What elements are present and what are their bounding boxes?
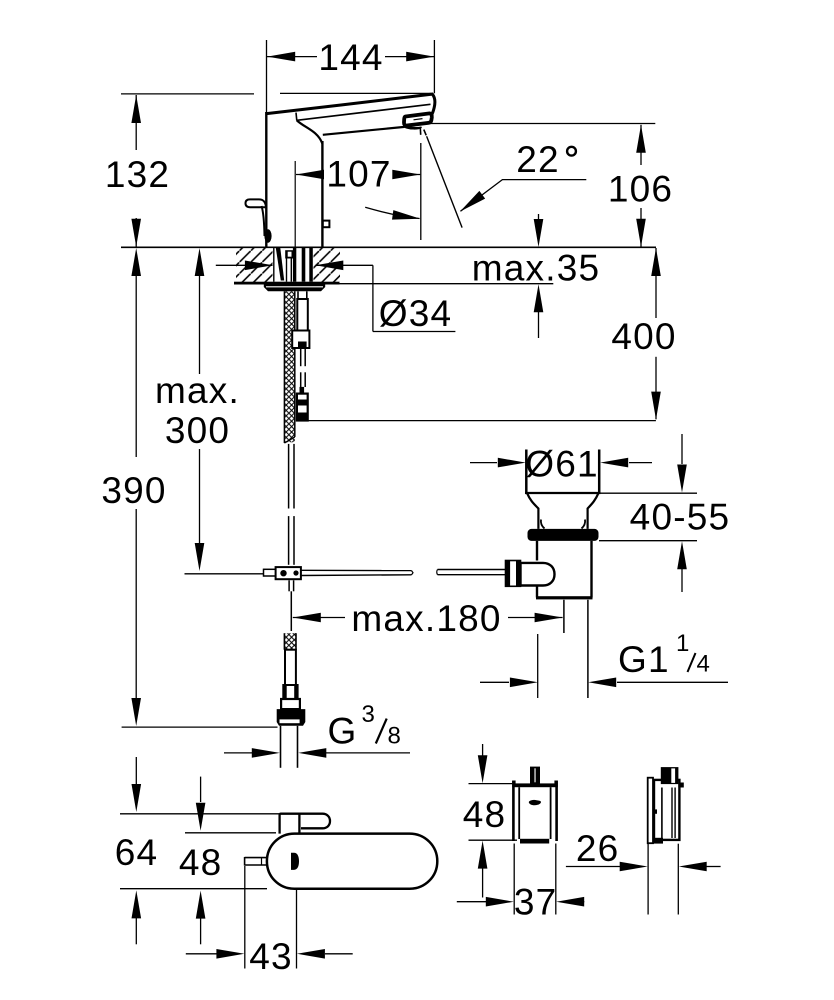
- svg-text:3: 3: [362, 701, 375, 728]
- spout crease line: [297, 104, 431, 120]
- svg-text:max.180: max.180: [351, 598, 501, 639]
- svg-text:48: 48: [463, 794, 507, 835]
- dim 48 unit: [469, 783, 513, 785]
- svg-text:Ø34: Ø34: [379, 293, 453, 334]
- dim 106 line: [640, 125, 642, 165]
- SECTION: power unit front view: [512, 767, 558, 844]
- drain cup: [525, 450, 600, 494]
- svg-text:40-55: 40-55: [630, 497, 731, 538]
- shank internals: [274, 248, 313, 282]
- cable plug connector: [297, 387, 308, 421]
- braided hose upper: [284, 291, 294, 443]
- svg-text:64: 64: [115, 832, 159, 873]
- dim 43: [244, 866, 246, 969]
- faucet body left edge: [265, 112, 267, 247]
- svg-text:400: 400: [611, 316, 676, 357]
- body stadium top view: [267, 834, 437, 889]
- drain tailpipe: [538, 600, 588, 698]
- dim 37: [513, 844, 515, 915]
- dim max300 line: [199, 276, 201, 374]
- dim 106 ext line top: [427, 123, 655, 125]
- dim 144 ext line left: [266, 40, 268, 113]
- counter bottom ext line: [340, 283, 554, 285]
- hose bottom ext line: [308, 420, 656, 422]
- dim 132 ext line top: [121, 93, 254, 95]
- dim G3/8: [224, 752, 252, 754]
- spout front curve: [297, 120, 323, 143]
- counter top line: [121, 246, 656, 248]
- dim O34 line: [216, 264, 273, 266]
- counter hatch right: [314, 248, 341, 282]
- counter bottom thick: [234, 282, 340, 285]
- svg-text:22: 22: [516, 139, 560, 180]
- lower hose end: [277, 633, 306, 726]
- valve tube: [292, 291, 309, 387]
- down tube: [289, 444, 294, 565]
- dim 64: [120, 813, 279, 815]
- sensor window: [291, 853, 299, 870]
- rod top view: [245, 857, 268, 866]
- cross fitting: [264, 567, 301, 591]
- dim max35 lower arrow: [538, 291, 540, 338]
- svg-text:107: 107: [326, 153, 391, 194]
- svg-text:G1: G1: [618, 639, 670, 680]
- svg-text:390: 390: [101, 470, 166, 511]
- SECTION: power unit side view: [648, 767, 684, 844]
- dim 48 top view: [185, 832, 276, 834]
- svg-text:4: 4: [697, 651, 710, 678]
- svg-text:Ø61: Ø61: [525, 443, 599, 484]
- svg-text:1: 1: [676, 630, 689, 657]
- 22 deg leader: [461, 180, 587, 212]
- spout underside: [323, 127, 405, 135]
- faucet spout top: [266, 94, 435, 115]
- spout top level line: [280, 92, 432, 94]
- svg-text:48: 48: [179, 842, 223, 883]
- angle arc arrow: [365, 207, 419, 218]
- spout step: [295, 113, 298, 121]
- dim max35 upper arrow: [538, 214, 540, 241]
- dim 132 line: [135, 95, 137, 150]
- escutcheon flange: [264, 284, 325, 291]
- svg-text:max.35: max.35: [472, 248, 601, 289]
- supply pipe G3/8: [281, 726, 298, 768]
- svg-text:max.: max.: [155, 370, 240, 411]
- pop-up rod left piece: [301, 570, 413, 575]
- dim max300 ext line: [185, 573, 264, 575]
- temperature lever: [246, 199, 272, 242]
- drain body: [536, 541, 593, 600]
- svg-text:8: 8: [388, 723, 401, 750]
- spray angle line: [427, 136, 463, 227]
- svg-text:144: 144: [318, 37, 383, 78]
- dim 390 ext line bottom: [122, 726, 278, 728]
- drain funnel neck: [527, 493, 599, 529]
- drain seal ring: [528, 529, 599, 541]
- svg-text:37: 37: [514, 882, 558, 923]
- dim O61: [470, 462, 497, 464]
- dim 144 line: [267, 56, 317, 58]
- drain rod clamp and dome: [437, 561, 555, 587]
- faucet body right edge: [321, 141, 323, 247]
- dim 400 line: [655, 248, 657, 318]
- dim 107 right ext vertical: [420, 143, 422, 240]
- dim 390 line: [135, 276, 137, 457]
- dim 26: [647, 844, 649, 915]
- spray dashes: [419, 128, 421, 135]
- svg-text:G: G: [328, 711, 358, 752]
- dim 144 ext line right: [433, 40, 435, 93]
- counter hatch left: [236, 248, 273, 282]
- faucet centerline: [294, 161, 296, 247]
- svg-text:43: 43: [249, 936, 293, 977]
- dim 107 line: [296, 174, 323, 176]
- dim 40-55: [681, 434, 683, 464]
- svg-text:300: 300: [165, 410, 230, 451]
- dim G1 1/4: [480, 681, 509, 683]
- svg-text:26: 26: [576, 828, 620, 869]
- cable below fitting: [290, 591, 292, 631]
- dim O34 leader box: [372, 265, 374, 331]
- dim max180 line: [293, 617, 345, 619]
- clip on right edge: [323, 221, 330, 228]
- svg-text:132: 132: [105, 154, 170, 195]
- svg-text:106: 106: [608, 169, 673, 210]
- aerator: [404, 113, 432, 128]
- lever top view: [280, 814, 330, 834]
